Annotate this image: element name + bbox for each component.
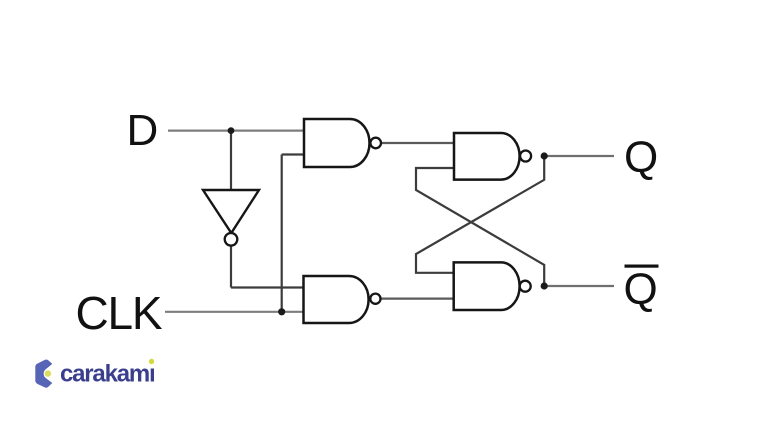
svg-text:Q: Q <box>624 133 658 182</box>
svg-text:D: D <box>127 106 159 155</box>
svg-text:CLK: CLK <box>76 287 163 339</box>
svg-text:Q: Q <box>624 265 658 314</box>
svg-text:carakamı: carakamı <box>60 361 155 388</box>
